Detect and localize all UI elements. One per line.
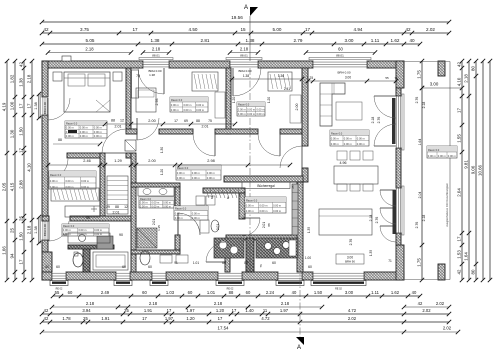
svg-text:1.30: 1.30 bbox=[10, 129, 15, 138]
svg-text:0.00 m: 0.00 m bbox=[80, 126, 88, 130]
svg-text:1.30: 1.30 bbox=[160, 147, 164, 153]
svg-text:0.00 m: 0.00 m bbox=[357, 137, 365, 141]
svg-text:1.20: 1.20 bbox=[160, 169, 164, 175]
svg-text:2.01: 2.01 bbox=[152, 219, 156, 225]
svg-text:88: 88 bbox=[267, 223, 271, 227]
svg-text:4.19: 4.19 bbox=[2, 102, 7, 111]
svg-text:1.03: 1.03 bbox=[166, 290, 175, 295]
svg-text:42: 42 bbox=[19, 62, 24, 67]
svg-text:1.35: 1.35 bbox=[157, 225, 161, 231]
svg-text:88.01: 88.01 bbox=[336, 53, 344, 57]
svg-text:2.81: 2.81 bbox=[201, 38, 210, 43]
svg-text:2.41: 2.41 bbox=[284, 87, 290, 91]
svg-text:1.64: 1.64 bbox=[464, 252, 469, 261]
svg-text:0.00 m: 0.00 m bbox=[344, 142, 352, 146]
svg-text:1.62: 1.62 bbox=[391, 38, 400, 43]
svg-text:0.00 m: 0.00 m bbox=[177, 176, 185, 180]
svg-text:0.00 m: 0.00 m bbox=[256, 107, 264, 111]
svg-text:42: 42 bbox=[44, 308, 49, 313]
svg-text:0.00 m: 0.00 m bbox=[94, 228, 102, 232]
svg-text:2.76: 2.76 bbox=[349, 239, 353, 246]
svg-text:0.00 m: 0.00 m bbox=[192, 211, 200, 215]
svg-text:1.11: 1.11 bbox=[371, 38, 380, 43]
svg-text:5.00: 5.00 bbox=[273, 27, 282, 32]
svg-text:2.18: 2.18 bbox=[369, 215, 373, 222]
svg-text:2.18: 2.18 bbox=[27, 74, 32, 83]
svg-text:1.38: 1.38 bbox=[19, 78, 24, 87]
svg-text:80: 80 bbox=[471, 269, 476, 274]
svg-text:1.38: 1.38 bbox=[243, 74, 249, 78]
svg-text:60: 60 bbox=[148, 265, 152, 269]
svg-text:3.00: 3.00 bbox=[345, 76, 351, 80]
svg-text:71: 71 bbox=[388, 259, 392, 263]
svg-text:2.04: 2.04 bbox=[457, 188, 462, 197]
svg-text:17: 17 bbox=[305, 27, 311, 32]
svg-text:2.01: 2.01 bbox=[262, 222, 266, 228]
svg-text:Raum 0.0: Raum 0.0 bbox=[331, 131, 343, 135]
svg-text:0.00 m: 0.00 m bbox=[163, 201, 171, 205]
svg-text:1.20: 1.20 bbox=[232, 97, 236, 103]
svg-text:0.00 m: 0.00 m bbox=[247, 112, 255, 116]
svg-text:17: 17 bbox=[174, 119, 178, 123]
svg-text:2.98: 2.98 bbox=[207, 159, 214, 163]
svg-text:1.35: 1.35 bbox=[369, 250, 373, 256]
svg-text:12: 12 bbox=[120, 119, 124, 123]
svg-text:1.38: 1.38 bbox=[34, 102, 38, 109]
svg-text:3.00: 3.00 bbox=[430, 82, 439, 87]
svg-text:60: 60 bbox=[142, 290, 147, 295]
svg-text:2.18: 2.18 bbox=[240, 47, 249, 52]
svg-text:60: 60 bbox=[308, 265, 312, 269]
svg-text:1.20: 1.20 bbox=[186, 316, 195, 321]
svg-text:2.04: 2.04 bbox=[418, 192, 422, 199]
svg-text:Raum 0.0: Raum 0.0 bbox=[238, 103, 250, 107]
svg-text:10.66: 10.66 bbox=[478, 164, 483, 176]
svg-text:71: 71 bbox=[394, 76, 398, 80]
svg-text:A: A bbox=[244, 5, 248, 11]
svg-text:17: 17 bbox=[19, 148, 24, 153]
svg-text:11: 11 bbox=[263, 308, 268, 313]
svg-text:17: 17 bbox=[142, 316, 147, 321]
svg-text:2.76: 2.76 bbox=[377, 117, 381, 124]
svg-text:2.18: 2.18 bbox=[149, 301, 158, 306]
svg-text:4.94: 4.94 bbox=[354, 27, 363, 32]
svg-text:2.18: 2.18 bbox=[152, 47, 161, 52]
svg-text:2.24: 2.24 bbox=[266, 290, 275, 295]
svg-text:0.00 m: 0.00 m bbox=[81, 179, 89, 183]
svg-text:0.00 m: 0.00 m bbox=[151, 201, 159, 205]
svg-text:1.53: 1.53 bbox=[457, 250, 462, 259]
svg-text:1.01: 1.01 bbox=[193, 261, 199, 265]
svg-text:2.88: 2.88 bbox=[19, 180, 24, 189]
svg-text:0.00 m: 0.00 m bbox=[428, 154, 436, 158]
svg-text:0.00 m: 0.00 m bbox=[50, 179, 58, 183]
svg-text:88: 88 bbox=[86, 216, 90, 220]
svg-text:90: 90 bbox=[119, 233, 123, 237]
svg-text:0.00 m: 0.00 m bbox=[94, 130, 102, 134]
svg-text:4.50: 4.50 bbox=[189, 27, 198, 32]
svg-text:Ausgleichsbeton R10 Rutschfest: Ausgleichsbeton R10 Rutschfestigkeit bbox=[445, 183, 449, 227]
svg-text:0.00 m: 0.00 m bbox=[238, 107, 246, 111]
svg-text:75: 75 bbox=[208, 119, 212, 123]
svg-text:25: 25 bbox=[10, 228, 15, 233]
svg-text:76: 76 bbox=[259, 264, 263, 268]
svg-text:0.00 m: 0.00 m bbox=[140, 201, 148, 205]
svg-text:2.00: 2.00 bbox=[148, 119, 155, 123]
svg-text:0.00 m: 0.00 m bbox=[196, 108, 204, 112]
svg-text:42: 42 bbox=[457, 269, 462, 274]
svg-text:17: 17 bbox=[19, 103, 24, 108]
svg-text:2.01: 2.01 bbox=[202, 125, 209, 129]
svg-text:0.00 m: 0.00 m bbox=[78, 228, 86, 232]
svg-text:BRH 0.00: BRH 0.00 bbox=[43, 102, 47, 115]
svg-text:0.00 m: 0.00 m bbox=[183, 103, 191, 107]
svg-text:2.79: 2.79 bbox=[294, 38, 303, 43]
svg-text:17: 17 bbox=[457, 236, 462, 241]
svg-text:1.00: 1.00 bbox=[10, 101, 15, 110]
svg-text:69: 69 bbox=[184, 119, 188, 123]
svg-text:3.00: 3.00 bbox=[345, 290, 354, 295]
svg-text:0.00 m: 0.00 m bbox=[207, 171, 215, 175]
svg-text:1.55: 1.55 bbox=[457, 134, 462, 143]
svg-text:17: 17 bbox=[232, 308, 237, 313]
svg-text:60: 60 bbox=[122, 265, 126, 269]
svg-text:42: 42 bbox=[43, 27, 49, 32]
svg-text:25: 25 bbox=[291, 185, 295, 189]
svg-text:0.00 m: 0.00 m bbox=[448, 154, 456, 158]
svg-text:2.93: 2.93 bbox=[155, 99, 159, 106]
svg-text:2.49: 2.49 bbox=[101, 290, 110, 295]
svg-text:0.00 m: 0.00 m bbox=[94, 126, 102, 130]
svg-text:1.38: 1.38 bbox=[149, 73, 155, 77]
svg-text:15: 15 bbox=[240, 27, 246, 32]
svg-text:Raum 0.0: Raum 0.0 bbox=[140, 197, 152, 201]
svg-text:1.62: 1.62 bbox=[391, 290, 400, 295]
svg-text:0.00 m: 0.00 m bbox=[247, 107, 255, 111]
svg-text:A: A bbox=[297, 345, 301, 350]
svg-text:0.00 m: 0.00 m bbox=[171, 103, 179, 107]
svg-text:2.76: 2.76 bbox=[415, 222, 419, 229]
svg-text:1.91: 1.91 bbox=[101, 316, 110, 321]
svg-text:25: 25 bbox=[19, 216, 24, 221]
svg-text:0.00 m: 0.00 m bbox=[344, 137, 352, 141]
svg-text:3.94: 3.94 bbox=[82, 308, 91, 313]
svg-text:0.00 m: 0.00 m bbox=[171, 108, 179, 112]
svg-text:1.38: 1.38 bbox=[151, 38, 160, 43]
svg-text:2.02: 2.02 bbox=[443, 326, 452, 331]
svg-text:60: 60 bbox=[338, 47, 343, 52]
svg-text:17: 17 bbox=[27, 103, 32, 108]
svg-text:90: 90 bbox=[63, 233, 67, 237]
svg-text:0.00 m: 0.00 m bbox=[175, 216, 183, 220]
svg-text:2.05: 2.05 bbox=[2, 182, 7, 191]
svg-text:0.00 m: 0.00 m bbox=[80, 130, 88, 134]
svg-text:1.20: 1.20 bbox=[267, 97, 271, 103]
svg-text:17: 17 bbox=[132, 27, 138, 32]
svg-text:2.02: 2.02 bbox=[426, 27, 435, 32]
svg-text:0.00 m: 0.00 m bbox=[65, 179, 73, 183]
svg-text:91: 91 bbox=[174, 261, 178, 265]
svg-text:42: 42 bbox=[405, 27, 411, 32]
svg-text:25: 25 bbox=[124, 308, 129, 313]
svg-text:17: 17 bbox=[218, 316, 223, 321]
svg-text:2.01: 2.01 bbox=[216, 224, 220, 230]
svg-text:2.18: 2.18 bbox=[422, 215, 426, 222]
svg-text:1.75: 1.75 bbox=[417, 258, 422, 267]
svg-text:0.00 m: 0.00 m bbox=[331, 137, 339, 141]
svg-text:2.00: 2.00 bbox=[295, 104, 299, 111]
svg-text:42: 42 bbox=[44, 316, 49, 321]
svg-text:60: 60 bbox=[68, 290, 73, 295]
svg-text:2.18: 2.18 bbox=[86, 301, 95, 306]
svg-text:40: 40 bbox=[412, 290, 417, 295]
svg-text:4.72: 4.72 bbox=[348, 308, 357, 313]
svg-text:1.64: 1.64 bbox=[418, 139, 422, 146]
svg-text:88: 88 bbox=[244, 261, 248, 265]
svg-text:1.97: 1.97 bbox=[280, 308, 289, 313]
svg-text:0.00 m: 0.00 m bbox=[177, 171, 185, 175]
svg-text:2.02: 2.02 bbox=[348, 316, 357, 321]
svg-text:1.91: 1.91 bbox=[144, 308, 153, 313]
svg-text:0.00 m: 0.00 m bbox=[183, 108, 191, 112]
svg-text:0.00 m: 0.00 m bbox=[273, 209, 281, 213]
svg-text:2.46: 2.46 bbox=[83, 159, 90, 163]
svg-text:Raum 0.0: Raum 0.0 bbox=[246, 198, 258, 202]
svg-text:BRH 0.00: BRH 0.00 bbox=[337, 71, 350, 75]
svg-text:0.00 m: 0.00 m bbox=[151, 204, 159, 208]
svg-text:9.06: 9.06 bbox=[471, 165, 476, 174]
svg-text:60: 60 bbox=[222, 261, 226, 265]
svg-text:1.01: 1.01 bbox=[207, 290, 216, 295]
svg-text:1.50: 1.50 bbox=[19, 232, 24, 241]
svg-text:40: 40 bbox=[409, 38, 415, 43]
svg-text:88: 88 bbox=[115, 205, 119, 209]
svg-text:RE 02: RE 02 bbox=[335, 288, 342, 291]
svg-text:88: 88 bbox=[229, 290, 234, 295]
svg-text:0.00 m: 0.00 m bbox=[163, 204, 171, 208]
svg-text:4.72: 4.72 bbox=[261, 316, 270, 321]
svg-text:2.02: 2.02 bbox=[422, 308, 431, 313]
svg-text:19.56: 19.56 bbox=[231, 15, 243, 20]
svg-text:88.01: 88.01 bbox=[152, 53, 160, 57]
svg-text:12: 12 bbox=[124, 205, 128, 209]
svg-text:40: 40 bbox=[292, 290, 297, 295]
svg-text:0.00 m: 0.00 m bbox=[63, 228, 71, 232]
svg-text:2.02: 2.02 bbox=[436, 301, 445, 306]
svg-text:60: 60 bbox=[188, 290, 193, 295]
svg-text:2.18: 2.18 bbox=[464, 74, 469, 83]
svg-text:0.00 m: 0.00 m bbox=[238, 112, 246, 116]
svg-text:Raum 0.0: Raum 0.0 bbox=[50, 173, 62, 177]
svg-text:2.01: 2.01 bbox=[113, 211, 120, 215]
svg-text:0.00 m: 0.00 m bbox=[207, 176, 215, 180]
svg-text:0.00 m: 0.00 m bbox=[192, 171, 200, 175]
svg-text:0.00 m: 0.00 m bbox=[259, 204, 267, 208]
svg-text:0.00 m: 0.00 m bbox=[273, 204, 281, 208]
svg-text:2.18: 2.18 bbox=[214, 301, 223, 306]
svg-text:2.18: 2.18 bbox=[371, 117, 375, 124]
svg-text:Raum 0.0: Raum 0.0 bbox=[428, 148, 440, 152]
svg-text:55: 55 bbox=[385, 76, 389, 80]
svg-text:3.00: 3.00 bbox=[345, 38, 354, 43]
svg-text:Raum 0.0: Raum 0.0 bbox=[66, 121, 78, 125]
svg-text:Bücherregal: Bücherregal bbox=[257, 184, 274, 188]
svg-text:0.00 m: 0.00 m bbox=[80, 134, 88, 138]
svg-text:1.38: 1.38 bbox=[34, 226, 38, 233]
svg-text:88: 88 bbox=[111, 119, 115, 123]
svg-text:0.00 m: 0.00 m bbox=[94, 134, 102, 138]
svg-text:0.00 m: 0.00 m bbox=[259, 209, 267, 213]
svg-text:17: 17 bbox=[457, 108, 462, 113]
svg-text:1.78: 1.78 bbox=[62, 316, 71, 321]
svg-text:1.82: 1.82 bbox=[10, 74, 15, 83]
svg-text:1.29: 1.29 bbox=[114, 159, 121, 163]
svg-text:4.10: 4.10 bbox=[457, 77, 462, 86]
svg-text:60: 60 bbox=[272, 261, 276, 265]
svg-text:4.96: 4.96 bbox=[340, 161, 347, 165]
svg-text:1.75: 1.75 bbox=[417, 70, 422, 79]
svg-text:0.00 m: 0.00 m bbox=[331, 142, 339, 146]
svg-text:1.25: 1.25 bbox=[307, 76, 313, 80]
svg-text:60: 60 bbox=[56, 265, 60, 269]
svg-text:0.00 m: 0.00 m bbox=[438, 154, 446, 158]
svg-text:1.97: 1.97 bbox=[165, 316, 174, 321]
svg-text:2.18: 2.18 bbox=[27, 225, 32, 234]
svg-text:0.00 m: 0.00 m bbox=[66, 134, 74, 138]
svg-text:1.20: 1.20 bbox=[216, 308, 225, 313]
svg-text:2.18: 2.18 bbox=[85, 47, 94, 52]
svg-text:1.00: 1.00 bbox=[305, 256, 311, 260]
svg-text:17.54: 17.54 bbox=[218, 326, 230, 331]
svg-text:1.11: 1.11 bbox=[371, 290, 380, 295]
svg-text:70: 70 bbox=[136, 74, 140, 78]
svg-text:40: 40 bbox=[45, 265, 49, 269]
svg-text:0.00 m: 0.00 m bbox=[246, 204, 254, 208]
svg-text:42: 42 bbox=[418, 301, 423, 306]
svg-text:2.18: 2.18 bbox=[281, 301, 290, 306]
svg-text:60: 60 bbox=[246, 290, 251, 295]
svg-text:1.35: 1.35 bbox=[307, 227, 311, 233]
svg-text:2.01: 2.01 bbox=[115, 125, 122, 129]
svg-text:2.76: 2.76 bbox=[415, 97, 419, 104]
svg-text:1.50: 1.50 bbox=[19, 127, 24, 136]
svg-text:88: 88 bbox=[58, 138, 62, 142]
svg-text:Raum 0.0: Raum 0.0 bbox=[63, 224, 75, 228]
svg-text:2.76: 2.76 bbox=[375, 217, 379, 224]
svg-text:25: 25 bbox=[83, 316, 88, 321]
svg-text:17: 17 bbox=[19, 259, 24, 264]
svg-text:1.40: 1.40 bbox=[245, 308, 254, 313]
svg-text:1.50: 1.50 bbox=[314, 290, 323, 295]
svg-text:0.00 m: 0.00 m bbox=[192, 176, 200, 180]
svg-text:88: 88 bbox=[196, 119, 200, 123]
svg-text:0.00 m: 0.00 m bbox=[66, 126, 74, 130]
svg-text:4.15: 4.15 bbox=[10, 182, 15, 191]
svg-text:4.10: 4.10 bbox=[27, 163, 32, 172]
svg-text:42: 42 bbox=[457, 62, 462, 67]
svg-text:88.01: 88.01 bbox=[240, 53, 248, 57]
svg-text:0.00 m: 0.00 m bbox=[256, 112, 264, 116]
svg-text:1.97: 1.97 bbox=[186, 308, 195, 313]
svg-text:Raum 0.0: Raum 0.0 bbox=[171, 98, 183, 102]
svg-text:0.00 m: 0.00 m bbox=[140, 204, 148, 208]
svg-text:9.81: 9.81 bbox=[464, 160, 469, 169]
svg-text:1.36: 1.36 bbox=[278, 74, 284, 78]
svg-text:0.00 m: 0.00 m bbox=[196, 103, 204, 107]
svg-text:0.00 m: 0.00 m bbox=[246, 209, 254, 213]
svg-text:BRH 90: BRH 90 bbox=[345, 260, 355, 264]
svg-text:0.00 m: 0.00 m bbox=[357, 142, 365, 146]
svg-text:17: 17 bbox=[167, 308, 172, 313]
svg-text:29: 29 bbox=[106, 205, 110, 209]
svg-text:2.18: 2.18 bbox=[422, 102, 426, 109]
svg-text:Raum 0.0: Raum 0.0 bbox=[175, 207, 187, 211]
svg-text:3.75: 3.75 bbox=[80, 27, 89, 32]
svg-text:55: 55 bbox=[55, 290, 60, 295]
svg-text:BRH 0.00: BRH 0.00 bbox=[43, 224, 47, 237]
svg-text:0.00 m: 0.00 m bbox=[192, 216, 200, 220]
svg-text:94: 94 bbox=[10, 253, 15, 258]
svg-text:BRH 0.00: BRH 0.00 bbox=[238, 69, 251, 73]
svg-text:1.66: 1.66 bbox=[2, 246, 7, 255]
svg-text:80: 80 bbox=[471, 66, 476, 71]
svg-text:5.05: 5.05 bbox=[86, 38, 95, 43]
svg-text:2.00: 2.00 bbox=[148, 159, 155, 163]
